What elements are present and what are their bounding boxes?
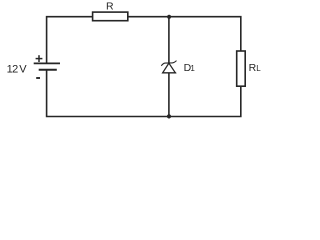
battery plus sign <box>36 55 43 62</box>
battery V1 negative plate (short) <box>39 69 57 71</box>
wire: bottom rail <box>47 70 241 117</box>
svg-text:RL: RL <box>249 62 262 74</box>
wire: diode branch bottom (zener to bottom junction) <box>168 73 170 117</box>
resistor RL <box>237 51 246 86</box>
resistor R <box>93 12 128 21</box>
junction node at top of D1 branch <box>167 15 171 19</box>
junction node at bottom of D1 branch <box>167 114 171 118</box>
battery V1 positive plate (long) <box>34 62 60 64</box>
wire: diode branch top (junction to zener) <box>168 17 170 63</box>
wire: top rail right segment (resistor R to top-right corner) <box>128 17 241 51</box>
zener diode D1 <box>161 61 176 73</box>
svg-text:R: R <box>106 0 114 12</box>
svg-text:D1: D1 <box>184 62 196 74</box>
svg-text:12 V: 12 V <box>7 63 28 75</box>
battery minus sign <box>36 77 40 79</box>
wire: top rail left segment (top-left corner to resistor R) <box>47 17 93 64</box>
